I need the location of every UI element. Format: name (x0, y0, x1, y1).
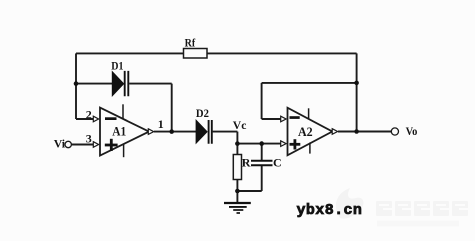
svg-text:D2: D2 (196, 106, 209, 120)
wire right vertical from top wire to output node (356, 53, 358, 131)
wire pin 3 input from Vi (72, 144, 94, 146)
svg-text:C: C (273, 155, 282, 169)
svg-text:Vo: Vo (406, 124, 418, 138)
node D1 branch (74, 81, 79, 86)
wire D2 cathode to corner (213, 131, 238, 133)
wire ground stem (236, 191, 238, 202)
resistor R (233, 155, 251, 180)
svg-text:A1: A1 (112, 124, 126, 139)
wire C bottom stub (261, 166, 263, 191)
wire top feedback (left of Rf) (76, 52, 184, 54)
resistor Rf (184, 35, 208, 58)
svg-text:Vc: Vc (233, 118, 247, 132)
pin 3 arrowhead (93, 142, 98, 148)
wire C top stub (261, 144, 263, 160)
wire A2 feedback top (262, 82, 357, 84)
wire D1 cathode to corner (129, 83, 172, 85)
wire Vc row to A2 plus input (237, 143, 281, 145)
faint watermark subtext (377, 221, 459, 227)
A2 power tick bottom (309, 143, 311, 154)
wire bottom RC join (237, 190, 261, 192)
A2 plus input arrowhead (281, 141, 286, 147)
svg-text:R: R (242, 155, 251, 169)
node Vc right (259, 141, 264, 146)
A1 power tick top (122, 104, 124, 119)
pin 2 arrowhead (93, 116, 98, 122)
A2 minus sign (290, 116, 300, 119)
wire R bottom stub (236, 180, 238, 192)
A2 power tick top (308, 108, 310, 119)
op-amp A1 (100, 104, 154, 157)
wire A2 output to Vo (338, 131, 391, 133)
wire A1 output to D2 (154, 131, 196, 133)
A2 minus input arrowhead (281, 116, 286, 122)
A2 output arrowhead (332, 129, 337, 135)
diode D2 (196, 106, 212, 144)
terminal Vo (391, 124, 417, 138)
op-amp A2 (288, 108, 338, 156)
svg-text:3: 3 (86, 132, 92, 146)
A1 plus sign (105, 144, 118, 147)
faint watermark characters (376, 201, 468, 216)
node output (354, 129, 359, 134)
diode D1 (111, 59, 128, 97)
wire vertical D1 branch down to node 1 (171, 84, 173, 132)
A1 power tick bottom (123, 144, 125, 157)
wire pin 2 input (76, 118, 94, 120)
A1 minus sign (105, 117, 117, 120)
node RC bottom (235, 189, 240, 194)
A1 output arrowhead (148, 129, 153, 135)
node Vc left (235, 141, 240, 146)
node 1 junction (169, 129, 174, 134)
wire A2 feedback vertical left (261, 83, 263, 119)
A2 plus sign (290, 143, 301, 146)
wire top feedback (right of Rf) (207, 52, 357, 54)
svg-text:D1: D1 (111, 59, 123, 73)
faint watermark logo swoosh (336, 188, 364, 219)
svg-text:A2: A2 (298, 124, 313, 139)
capacitor C (251, 155, 282, 169)
wire corner down to node Vc row (236, 132, 238, 144)
svg-text:2: 2 (86, 108, 92, 122)
node A2 feedback (354, 81, 359, 86)
ground (224, 203, 251, 213)
wire left vertical from top wire to pin 2 (75, 53, 77, 119)
wire A2 minus input (262, 118, 282, 120)
terminal Vi (54, 136, 72, 150)
svg-text:Rf: Rf (185, 35, 196, 49)
wire D1 anode branch (76, 83, 112, 85)
svg-text:Vi: Vi (54, 136, 66, 150)
svg-text:ybx8.cn: ybx8.cn (297, 202, 363, 219)
svg-text:1: 1 (158, 117, 164, 131)
wire R top stub (236, 144, 238, 155)
